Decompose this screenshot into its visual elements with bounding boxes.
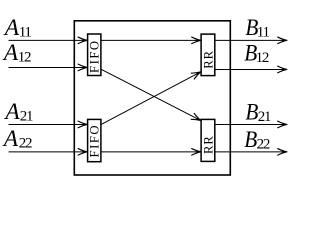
wire F1 to R2 diagonal	[101, 69, 201, 120]
node B12 label	[244, 41, 269, 67]
RR box R2	[201, 119, 215, 161]
node A22 label	[2, 126, 32, 152]
outer switch box	[74, 21, 230, 175]
svg-text:B: B	[244, 127, 257, 153]
FIFO box F1	[88, 34, 101, 76]
node A21 label	[3, 99, 33, 125]
wire A11 input	[9, 39, 88, 41]
svg-text:FIFO: FIFO	[88, 124, 102, 158]
FIFO F1 label	[88, 39, 102, 72]
node B22 label	[244, 127, 270, 153]
svg-text:12: 12	[18, 50, 31, 66]
wire F2 to R2 straight	[101, 151, 201, 153]
wire B11 output	[215, 39, 287, 41]
RR box R1	[201, 34, 215, 76]
svg-text:21: 21	[258, 109, 271, 125]
RR R1 label	[202, 50, 216, 69]
wire F2 to R1 diagonal	[101, 72, 201, 125]
svg-text:11: 11	[19, 24, 32, 40]
node B11 label	[245, 15, 269, 41]
wire B12 output	[215, 68, 287, 70]
RR R2 label	[202, 135, 216, 154]
svg-text:A: A	[2, 126, 19, 152]
node A12 label	[2, 40, 31, 66]
wire A22 input	[9, 151, 88, 153]
svg-text:RR: RR	[202, 50, 216, 69]
svg-text:22: 22	[257, 136, 270, 152]
wire B22 output	[215, 151, 287, 153]
wire A21 input	[9, 123, 88, 125]
svg-text:A: A	[3, 99, 20, 125]
svg-text:A: A	[2, 40, 19, 66]
svg-text:B: B	[245, 99, 258, 125]
FIFO box F2	[88, 119, 101, 161]
svg-text:22: 22	[19, 136, 32, 152]
svg-text:21: 21	[20, 109, 33, 125]
node B21 label	[245, 99, 271, 125]
svg-text:FIFO: FIFO	[88, 39, 102, 72]
svg-text:11: 11	[257, 24, 270, 40]
FIFO F2 label	[88, 124, 102, 158]
node A11 label	[3, 15, 32, 41]
wire B21 output	[215, 123, 287, 125]
svg-text:RR: RR	[202, 135, 216, 154]
wire A12 input	[9, 66, 88, 68]
svg-text:A: A	[3, 15, 20, 41]
wire F1 to R1 straight	[101, 39, 201, 41]
svg-text:12: 12	[256, 50, 269, 66]
